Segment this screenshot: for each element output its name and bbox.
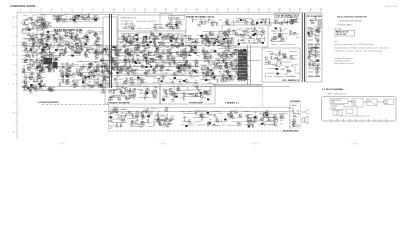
svg-text:Q666: Q666 xyxy=(284,74,288,76)
wire xyxy=(125,23,127,29)
resistor R24 xyxy=(29,59,33,60)
IC block xyxy=(194,71,196,73)
resistor R168 xyxy=(183,57,184,61)
dashed board edge xyxy=(108,105,110,131)
ground xyxy=(24,87,26,89)
wire xyxy=(231,21,246,23)
node N7 xyxy=(35,44,38,47)
transistor Q86 xyxy=(178,21,181,24)
ground xyxy=(154,44,156,46)
svg-text:0.022: 0.022 xyxy=(207,57,211,59)
resistor R35 xyxy=(66,36,70,37)
node N48 xyxy=(157,52,160,55)
svg-text:560: 560 xyxy=(189,36,192,38)
node N27 xyxy=(84,74,87,77)
wire xyxy=(258,27,264,29)
svg-text:47u: 47u xyxy=(311,20,314,22)
resistor R85 xyxy=(91,71,95,72)
diode D14 xyxy=(61,45,64,47)
resistor R26 xyxy=(34,79,35,83)
diode D56 xyxy=(251,31,254,33)
ground xyxy=(69,73,71,75)
wire xyxy=(40,19,42,26)
resistor R99 xyxy=(130,27,134,28)
svg-text:R408: R408 xyxy=(170,56,174,58)
resistor R144 xyxy=(111,69,115,70)
resistor R5 xyxy=(43,25,44,29)
diode D3 xyxy=(32,43,35,45)
header backing xyxy=(186,15,216,18)
resistor R79 xyxy=(96,66,100,67)
capacitor C153 xyxy=(192,19,194,23)
capacitor C86 xyxy=(165,36,167,40)
svg-text:220: 220 xyxy=(175,47,178,49)
capacitor C102 xyxy=(145,39,147,43)
resistor R20 xyxy=(41,53,42,57)
transistor Q54 xyxy=(86,49,89,52)
transistor Q110 xyxy=(185,62,188,65)
resistor R97 xyxy=(82,83,86,84)
resistor R154 xyxy=(191,70,195,71)
capacitor C122 xyxy=(144,47,148,49)
resistor R165 xyxy=(148,51,149,55)
svg-text:330: 330 xyxy=(125,48,128,50)
resistor R157 xyxy=(112,67,116,68)
wire xyxy=(110,14,112,88)
wire xyxy=(22,72,35,74)
wire xyxy=(118,51,250,53)
svg-text:Q135: Q135 xyxy=(164,46,168,48)
wire xyxy=(185,51,187,55)
board outline: amp board bottom xyxy=(160,84,215,104)
dashed vertical link xyxy=(262,87,264,107)
svg-text:0.01: 0.01 xyxy=(38,63,41,65)
svg-text:IC653: IC653 xyxy=(104,69,109,71)
wire xyxy=(223,37,229,39)
wire xyxy=(92,79,99,81)
resistor R84 xyxy=(82,66,86,67)
svg-text:L: L xyxy=(13,122,14,124)
capacitor C15 xyxy=(41,48,43,52)
resistor R159 xyxy=(135,46,136,50)
IC block xyxy=(101,66,103,68)
ground xyxy=(50,69,52,71)
resistor R142 xyxy=(133,69,134,73)
svg-text:D527: D527 xyxy=(131,85,135,87)
svg-text:103: 103 xyxy=(246,66,249,68)
wire xyxy=(60,41,75,43)
wire xyxy=(224,45,231,47)
svg-text:IC880: IC880 xyxy=(123,96,128,98)
svg-text:Q785: Q785 xyxy=(232,31,236,33)
transistor Q39 xyxy=(50,53,53,56)
resistor R107 xyxy=(123,36,124,40)
svg-text:R728: R728 xyxy=(130,125,134,127)
IC block xyxy=(38,83,40,85)
svg-text:R32: R32 xyxy=(109,128,112,130)
svg-text:R685: R685 xyxy=(127,61,131,63)
wire xyxy=(26,18,28,21)
ground xyxy=(177,71,179,73)
wire xyxy=(133,55,135,59)
resistor R202 xyxy=(254,27,255,31)
capacitor C147 xyxy=(126,77,128,81)
svg-text:C279: C279 xyxy=(62,41,66,43)
capacitor C132 xyxy=(178,68,180,72)
svg-text:IC644: IC644 xyxy=(136,51,141,53)
capacitor C94 xyxy=(183,35,187,37)
svg-text:Q965: Q965 xyxy=(79,17,83,19)
node N14 xyxy=(65,15,68,18)
resistor R93 xyxy=(79,70,83,71)
IC pin row gap xyxy=(238,61,246,63)
transistor Q160 xyxy=(184,79,187,82)
IC block xyxy=(150,66,152,68)
board outline: bus column xyxy=(103,17,117,90)
ruler tick 2 xyxy=(30,11,32,13)
capacitor C38 xyxy=(94,51,98,53)
transistor Q83 xyxy=(175,21,178,24)
capacitor C53 xyxy=(45,42,47,46)
ruler tick 5 xyxy=(61,11,63,13)
resistor R141 xyxy=(114,47,115,51)
svg-text:100: 100 xyxy=(196,55,199,57)
svg-text:R519: R519 xyxy=(24,15,28,17)
svg-text:UNIT : CFD-55 Lch: UNIT : CFD-55 Lch xyxy=(327,94,346,96)
wire xyxy=(78,75,86,77)
wire xyxy=(124,65,126,69)
svg-text:C442: C442 xyxy=(115,127,119,129)
capacitor C11 xyxy=(34,25,38,27)
resistor R114 xyxy=(170,44,174,45)
connector row xyxy=(308,39,313,41)
resistor R120 xyxy=(175,39,176,43)
svg-text:Q965: Q965 xyxy=(274,126,278,128)
svg-text:100: 100 xyxy=(195,92,198,94)
svg-text:1uF: 1uF xyxy=(76,80,79,82)
svg-text:D755: D755 xyxy=(23,24,27,26)
IC pin row gap xyxy=(238,70,246,72)
svg-text:R964: R964 xyxy=(229,38,233,40)
connector pin cluster xyxy=(318,19,322,21)
wire xyxy=(97,64,102,66)
wire xyxy=(46,42,48,47)
svg-text:D891: D891 xyxy=(45,36,49,38)
resistor R7 xyxy=(32,54,33,58)
IC block xyxy=(145,36,147,38)
capacitor C143 xyxy=(114,46,118,48)
svg-text:IC395: IC395 xyxy=(181,65,186,67)
IC block xyxy=(47,36,49,38)
svg-text:D59: D59 xyxy=(207,126,210,128)
svg-text:0.022: 0.022 xyxy=(312,61,316,63)
svg-text:• : PARTS EXTRACTED FROM THE B: • : PARTS EXTRACTED FROM THE BOARD. xyxy=(338,19,362,22)
wire xyxy=(255,42,264,44)
capacitor C41 xyxy=(52,34,56,36)
diode D12 xyxy=(80,16,83,18)
svg-text:IC623: IC623 xyxy=(61,52,66,54)
wire xyxy=(142,45,148,47)
svg-text:0.022: 0.022 xyxy=(208,33,212,35)
diode D15 xyxy=(94,32,97,34)
IC main dark xyxy=(238,50,247,80)
ground xyxy=(172,80,174,82)
transistor Q140 xyxy=(104,47,107,50)
resistor R109 xyxy=(124,38,128,39)
transistor Q12 xyxy=(37,39,40,42)
svg-text:IC296: IC296 xyxy=(81,69,86,71)
svg-text:IC512: IC512 xyxy=(21,32,26,34)
svg-text:IC501: IC501 xyxy=(332,108,336,110)
svg-text:560: 560 xyxy=(59,54,62,56)
svg-text:CD DSP: CD DSP xyxy=(332,106,337,108)
transistor Q67 xyxy=(66,71,69,74)
wire xyxy=(251,34,263,36)
resistor R162 xyxy=(175,67,179,68)
resistor R156 xyxy=(102,63,106,64)
IC pin row gap xyxy=(238,76,246,78)
capacitor C25 xyxy=(62,19,66,21)
ground xyxy=(28,75,30,77)
svg-text:IC758: IC758 xyxy=(274,19,279,21)
resistor R127 xyxy=(145,70,146,74)
node N24 xyxy=(88,80,91,83)
ground xyxy=(28,54,30,56)
wire xyxy=(277,22,288,24)
board edge stub xyxy=(36,17,38,28)
capacitor C43 xyxy=(90,46,92,50)
wire xyxy=(121,23,134,25)
wire xyxy=(42,48,51,50)
transistor Q172 xyxy=(226,32,229,35)
svg-text:2-4. BLOCK DIAGRAM: 2-4. BLOCK DIAGRAM xyxy=(322,88,343,91)
resistor R19 xyxy=(31,39,35,40)
capacitor C60 xyxy=(41,59,45,61)
resistor R49 xyxy=(77,46,81,47)
transistor Q7 xyxy=(42,46,45,49)
transistor Q95 xyxy=(128,40,131,43)
resistor R61 xyxy=(40,33,44,34)
svg-text:D86: D86 xyxy=(127,75,130,77)
svg-text:D726: D726 xyxy=(281,41,285,43)
resistor R119 xyxy=(134,44,138,45)
IC block xyxy=(238,43,240,45)
IC block xyxy=(194,52,196,54)
node N26 xyxy=(96,66,99,69)
board outline: main board left xyxy=(37,28,103,91)
svg-text:Q60: Q60 xyxy=(40,44,43,46)
resistor R21 xyxy=(34,68,38,69)
wire xyxy=(169,65,179,67)
diode D47 xyxy=(124,62,127,64)
resistor R167 xyxy=(142,50,146,51)
svg-text:C377: C377 xyxy=(217,44,221,46)
svg-text:TUNER SECTION: TUNER SECTION xyxy=(120,17,137,19)
capacitor C48 xyxy=(84,51,86,55)
wire xyxy=(118,37,215,39)
ground xyxy=(193,48,195,50)
board outline: tuner block xyxy=(118,15,186,74)
diode D31 xyxy=(153,27,156,29)
wire xyxy=(131,62,137,64)
capacitor C104 xyxy=(191,69,195,71)
diode D33 xyxy=(126,41,129,43)
ruler tick 27 xyxy=(289,11,291,13)
resistor R91 xyxy=(98,68,99,72)
diode D21 xyxy=(58,36,61,38)
connector row xyxy=(308,71,313,73)
diode D32 xyxy=(143,36,146,38)
svg-text:Q655: Q655 xyxy=(208,82,212,84)
wire xyxy=(213,85,262,87)
capacitor C149 xyxy=(124,80,128,82)
capacitor C124 xyxy=(170,57,174,59)
capacitor C19 xyxy=(38,60,42,62)
node N51 xyxy=(135,47,138,50)
svg-text:Q902: Q902 xyxy=(213,117,217,119)
svg-text:D627: D627 xyxy=(250,118,254,120)
svg-text:220: 220 xyxy=(46,49,49,51)
svg-text:C958: C958 xyxy=(180,53,184,55)
resistor R71 xyxy=(53,69,54,73)
capacitor C35 xyxy=(84,44,86,48)
svg-text:33u: 33u xyxy=(49,44,52,46)
svg-text:Q657: Q657 xyxy=(96,47,100,49)
wire xyxy=(138,61,143,63)
top ruler line xyxy=(17,11,322,13)
transistor Q98 xyxy=(171,35,174,38)
svg-text:33u: 33u xyxy=(153,122,156,124)
wire xyxy=(195,52,199,54)
transistor Q51 xyxy=(96,39,99,42)
transistor Q9 xyxy=(28,38,31,41)
svg-text:R741: R741 xyxy=(126,98,130,100)
diode D11 xyxy=(25,59,28,61)
svg-text:R597: R597 xyxy=(38,88,42,90)
capacitor C137 xyxy=(132,60,134,64)
svg-text:R819: R819 xyxy=(171,83,175,85)
wire xyxy=(247,45,249,85)
capacitor C23 xyxy=(30,65,32,69)
transistor Q23 xyxy=(74,15,77,18)
transistor Q126 xyxy=(125,69,128,72)
wire xyxy=(136,45,147,47)
node N52 xyxy=(138,81,141,84)
wire xyxy=(158,78,160,83)
ground xyxy=(49,63,51,65)
resistor R192 xyxy=(138,78,142,79)
svg-text:330: 330 xyxy=(314,48,317,50)
transistor Q36 xyxy=(84,54,87,57)
ruler tick 12 xyxy=(133,11,135,13)
resistor R62 xyxy=(43,44,47,45)
resistor R189 xyxy=(163,76,164,80)
diode D38 xyxy=(149,58,152,60)
wire xyxy=(23,23,29,25)
wire xyxy=(50,41,57,43)
ruler letter G xyxy=(16,73,17,75)
capacitor C90 xyxy=(180,40,184,42)
svg-text:Q391: Q391 xyxy=(236,60,240,62)
resistor R75 xyxy=(48,68,49,72)
wire xyxy=(287,19,289,25)
svg-text:C38: C38 xyxy=(209,92,212,94)
transistor Q144 xyxy=(152,68,155,71)
capacitor C160 xyxy=(290,22,294,24)
svg-text:JACK BOARD: JACK BOARD xyxy=(283,130,300,133)
wire xyxy=(42,45,49,47)
svg-text:IC267: IC267 xyxy=(271,59,276,61)
svg-text:D355: D355 xyxy=(60,67,64,69)
ground xyxy=(146,63,148,65)
wire xyxy=(158,35,174,37)
wire xyxy=(250,45,252,85)
svg-text:33u: 33u xyxy=(85,45,88,47)
wire xyxy=(148,36,150,41)
wire xyxy=(256,39,258,45)
ground xyxy=(159,44,161,46)
ground xyxy=(48,68,50,70)
wire xyxy=(39,80,41,86)
svg-text:33u: 33u xyxy=(280,124,283,126)
svg-text:Q449: Q449 xyxy=(132,73,136,75)
svg-text:D772: D772 xyxy=(108,118,112,120)
resistor R13 xyxy=(21,42,25,43)
svg-text:103: 103 xyxy=(67,43,70,45)
transistor Q40 xyxy=(63,50,66,53)
svg-text:0.01: 0.01 xyxy=(183,62,186,64)
resistor R45 xyxy=(41,34,42,38)
capacitor C123 xyxy=(196,59,198,63)
wire xyxy=(179,69,189,71)
svg-text:33u: 33u xyxy=(317,38,320,40)
resistor R100 xyxy=(153,24,157,25)
wire xyxy=(122,27,130,29)
svg-text:R37: R37 xyxy=(80,72,83,74)
diode D55 xyxy=(232,30,235,32)
resistor R112 xyxy=(183,42,184,46)
ruler tick 10 xyxy=(113,11,115,13)
wire xyxy=(52,15,65,17)
wire xyxy=(126,48,132,50)
capacitor C155 xyxy=(197,24,201,26)
wire xyxy=(206,22,218,24)
transistor Q52 xyxy=(85,34,88,37)
IC block xyxy=(136,39,138,41)
wire xyxy=(186,13,300,15)
wire xyxy=(219,30,231,32)
ruler tick 19 xyxy=(206,11,208,13)
resistor R41 xyxy=(53,33,54,37)
transistor Q46 xyxy=(94,50,97,53)
resistor R57 xyxy=(81,43,82,47)
diode D9 xyxy=(24,60,27,62)
wire xyxy=(158,70,174,72)
resistor R65 xyxy=(59,37,63,38)
capacitor C69 xyxy=(65,74,69,76)
wire xyxy=(58,79,69,81)
resistor R17 xyxy=(38,53,42,54)
svg-text:R174: R174 xyxy=(42,27,46,29)
transistor Q99 xyxy=(125,39,128,42)
wire xyxy=(242,30,250,32)
transistor Q93 xyxy=(176,45,179,48)
resistor R149 xyxy=(136,55,140,56)
capacitor C171 xyxy=(238,39,240,43)
wire xyxy=(155,61,162,63)
svg-text:IC445: IC445 xyxy=(160,115,165,117)
svg-text:R485: R485 xyxy=(203,24,207,26)
